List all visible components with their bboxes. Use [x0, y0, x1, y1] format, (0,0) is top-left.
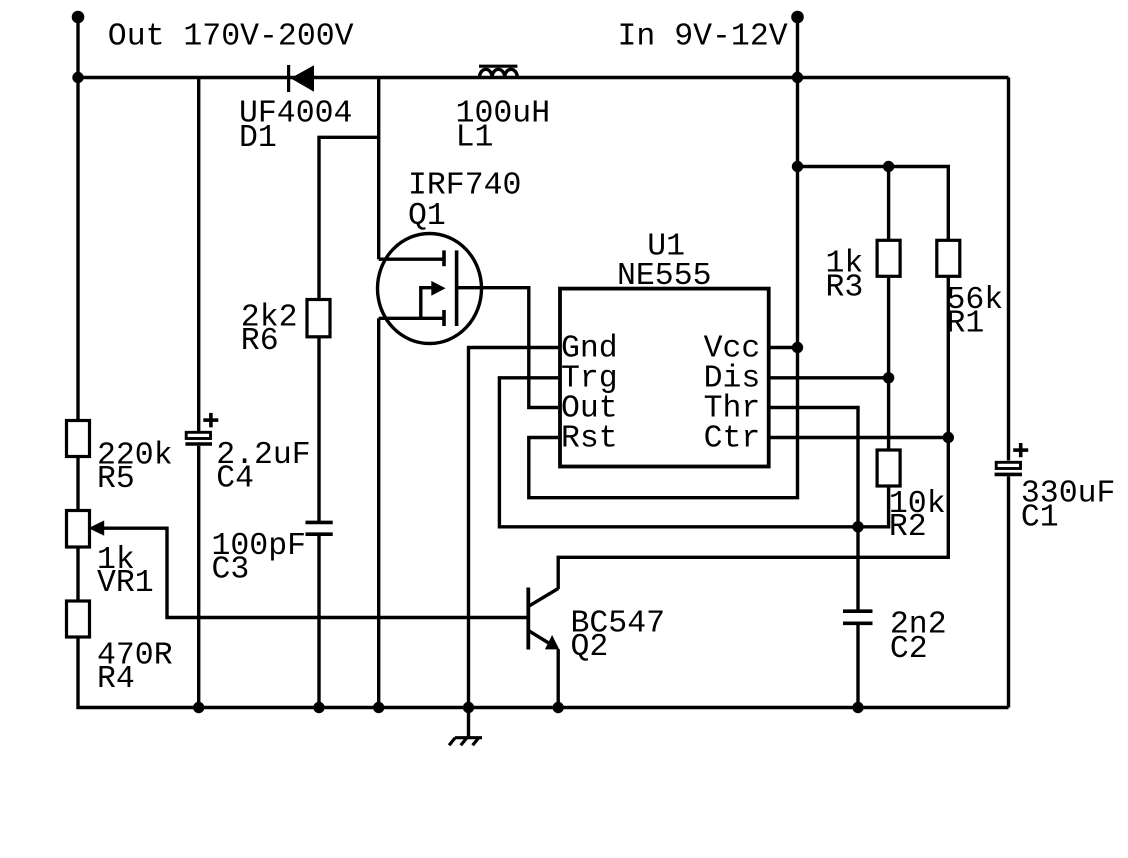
svg-text:Q2: Q2	[571, 630, 609, 665]
svg-text:In 9V-12V: In 9V-12V	[618, 20, 788, 55]
svg-text:Rst: Rst	[561, 421, 618, 456]
svg-text:R2: R2	[889, 510, 927, 545]
svg-text:C1: C1	[1021, 501, 1059, 536]
svg-text:C2: C2	[890, 632, 928, 667]
svg-text:L1: L1	[456, 121, 494, 156]
svg-text:C4: C4	[216, 461, 254, 496]
svg-text:R6: R6	[241, 324, 279, 359]
svg-text:R1: R1	[947, 306, 985, 341]
svg-text:Ctr: Ctr	[704, 421, 761, 456]
svg-text:VR1: VR1	[97, 566, 154, 601]
svg-text:R4: R4	[97, 662, 135, 697]
svg-text:D1: D1	[239, 121, 277, 156]
svg-text:R5: R5	[97, 462, 135, 497]
svg-text:NE555: NE555	[617, 259, 712, 294]
svg-text:Out 170V-200V: Out 170V-200V	[108, 20, 354, 55]
svg-text:Q1: Q1	[408, 199, 446, 234]
svg-text:R3: R3	[826, 271, 864, 306]
svg-text:C3: C3	[212, 553, 250, 588]
